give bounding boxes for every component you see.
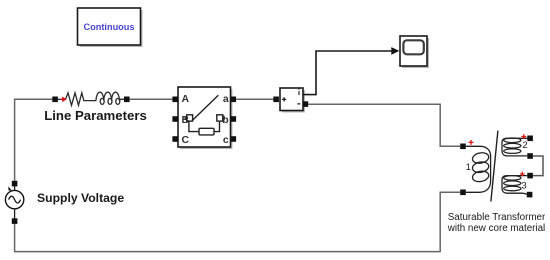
current measurement block M1	[273, 88, 308, 113]
node RL branch output port	[124, 97, 130, 103]
node port a	[231, 97, 237, 103]
wire measurement minus to transformer winding 1 top	[308, 104, 460, 146]
node winding 2 top port	[527, 136, 533, 142]
node source plus terminal	[12, 181, 18, 187]
node winding 1 top port	[460, 144, 466, 150]
wire Line Parameters output to breaker port A	[130, 98, 173, 100]
svg-text:Supply Voltage: Supply Voltage	[37, 191, 124, 205]
node RL branch input port	[52, 97, 58, 103]
polarity arrow	[8, 186, 11, 190]
inductor L1	[96, 92, 124, 100]
svg-text:1: 1	[466, 162, 471, 173]
svg-text:2: 2	[522, 140, 527, 151]
snubber resistor inside breaker	[189, 121, 220, 135]
node winding 3 top port	[527, 173, 533, 179]
svg-text:Continuous: Continuous	[83, 22, 134, 32]
polarity mark red plus winding 2	[521, 134, 526, 139]
node port A	[172, 97, 178, 103]
node source minus terminal	[12, 218, 18, 224]
arrowhead into scope	[391, 47, 399, 55]
node winding 1 bottom port	[460, 190, 466, 196]
node plus port	[273, 97, 279, 103]
wire input stub	[58, 98, 66, 100]
node port b	[231, 116, 237, 122]
polarity mark red plus winding 3	[520, 172, 525, 177]
svg-text:3: 3	[521, 181, 526, 192]
node minus port	[303, 101, 309, 107]
three-phase breaker CB1	[172, 87, 236, 149]
saturable transformer T1	[460, 131, 543, 202]
wire source V1 minus along bottom rail to transformer winding 1 bottom	[15, 192, 461, 251]
winding 1 coil	[466, 146, 491, 192]
node port C	[172, 136, 178, 142]
wire through source terminals	[14, 183, 16, 222]
svg-text:c: c	[223, 134, 229, 146]
AC voltage source V1 Supply Voltage	[5, 181, 23, 224]
source circle with sine	[5, 190, 23, 208]
pin label minus	[297, 103, 300, 105]
signal wire i output to scope	[303, 51, 392, 95]
winding 3 coil	[502, 176, 527, 195]
breaker switch symbol	[185, 95, 225, 121]
svg-text:a: a	[223, 93, 229, 105]
scope block SC1	[400, 36, 429, 68]
pin label plus	[282, 97, 286, 101]
pin label i output	[298, 91, 300, 95]
wire source V1 plus to Line Parameters input	[15, 99, 53, 182]
series RL branch Z1 Line Parameters	[52, 92, 129, 105]
scope screen	[403, 40, 423, 54]
svg-text:Line Parameters: Line Parameters	[44, 108, 147, 123]
node port c	[231, 136, 237, 142]
core line	[491, 131, 498, 202]
powergui block U1 Continuous	[78, 8, 143, 47]
winding 2 coil	[502, 138, 527, 156]
node winding 2 bottom port	[527, 153, 533, 159]
svg-text:with new core material: with new core material	[447, 223, 545, 234]
resistor R1	[66, 93, 97, 106]
svg-text:A: A	[182, 93, 190, 105]
polarity mark red arrow at RL input	[61, 97, 67, 103]
wire winding 2 bottom to winding 3 top	[533, 156, 543, 176]
node port B	[172, 116, 178, 122]
svg-text:Saturable Transformer: Saturable Transformer	[448, 212, 546, 223]
svg-text:C: C	[182, 134, 190, 146]
node winding 3 bottom port	[527, 192, 533, 198]
polarity mark red plus winding 1	[469, 140, 474, 145]
wire breaker port a to current measurement plus	[236, 98, 273, 100]
